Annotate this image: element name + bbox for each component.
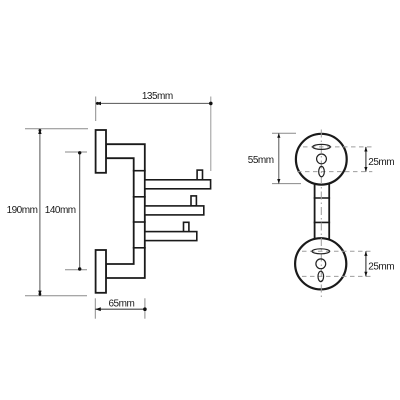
svg-text:190mm: 190mm <box>7 205 38 216</box>
svg-text:65mm: 65mm <box>109 298 135 309</box>
node: top disc lower hole <box>319 166 325 176</box>
wire: 190mm dimension line <box>39 129 41 296</box>
wire: top disc upper hole centerline <box>303 146 372 148</box>
node: hook arm 1 peg <box>197 170 202 180</box>
node: 65mm left arrow <box>95 307 101 311</box>
wire: 65mm right extension line <box>144 298 146 318</box>
node: 135mm right dot <box>209 102 213 106</box>
wire: bar joint line 1 <box>133 170 146 172</box>
wire: 190mm bottom extension line <box>25 295 87 297</box>
wire: 190mm top extension line <box>25 128 88 130</box>
node: 140mm top dot <box>78 151 81 154</box>
node: 25mm top dim upper arrow <box>364 147 367 152</box>
wire: bottom disc upper hole centerline <box>302 250 372 252</box>
node: hook arm 3 <box>145 232 197 241</box>
svg-text:25mm: 25mm <box>368 261 394 272</box>
node: bottom disc center hole <box>316 259 326 269</box>
svg-text:25mm: 25mm <box>368 157 394 168</box>
node: bottom disc slot hole <box>312 249 330 254</box>
node: 25mm top dim lower arrow <box>364 167 367 172</box>
node: top disc center hole <box>317 154 327 164</box>
wire: bar joint line 3 <box>133 221 146 223</box>
wire: 135mm dimension line <box>96 102 211 104</box>
wire: 140mm top extension line <box>65 151 87 153</box>
node: bottom mounting disc <box>295 238 346 289</box>
node: 135mm left arrow <box>96 102 101 106</box>
wire: vertical centerline <box>320 130 322 298</box>
wire: 140mm dimension line <box>79 152 81 270</box>
wire: 140mm bottom extension line <box>65 269 87 271</box>
wire: 25mm top dimension line <box>365 147 367 172</box>
node: 65mm right dot <box>143 307 147 311</box>
wire: neck joint line 1 <box>314 197 330 199</box>
node: bottom wall flange <box>96 250 106 293</box>
node: hook arm 2 <box>145 206 204 215</box>
wire: 65mm dimension line <box>95 308 145 310</box>
node: top mounting disc <box>296 134 347 185</box>
node: 140mm bottom dot <box>78 267 81 270</box>
node: 25mm bottom dim upper arrow <box>364 251 367 256</box>
wire: 25mm bottom dimension line <box>365 251 367 276</box>
node: 25mm bottom dim lower arrow <box>364 272 367 277</box>
node: 190mm top arrow <box>38 129 41 134</box>
wire: 135mm right extension line <box>210 97 212 172</box>
svg-text:135mm: 135mm <box>142 91 173 102</box>
wire: top disc lower hole centerline <box>297 171 372 173</box>
wire: 55mm dimension line <box>278 133 280 183</box>
wire: bar joint line 4 <box>133 247 146 249</box>
node: bottom disc lower hole <box>318 271 324 281</box>
wire: 55mm top extension line <box>272 132 296 134</box>
wire: 55mm bottom extension line <box>272 183 301 185</box>
wire: 135mm left extension line <box>95 97 97 122</box>
wire: neck joint line 2 <box>314 221 330 223</box>
node: 55mm top arrow <box>277 133 280 138</box>
svg-text:55mm: 55mm <box>248 155 274 166</box>
node: top disc slot hole <box>313 144 331 149</box>
node: 190mm bottom arrow <box>38 291 41 296</box>
wire: mount body C-outline (arm-bar-arm) <box>106 144 145 278</box>
node: hook arm 3 peg <box>184 222 189 232</box>
node: 55mm bottom arrow <box>277 179 280 184</box>
svg-text:140mm: 140mm <box>45 205 76 216</box>
wire: bar joint line 2 <box>133 196 146 198</box>
node: connecting neck bar <box>315 183 330 240</box>
node: hook arm 2 peg <box>191 196 196 206</box>
wire: bottom disc lower hole centerline <box>302 275 372 277</box>
node: hook arm 1 <box>145 180 211 189</box>
wire: 65mm left extension line <box>94 298 96 318</box>
node: top wall flange <box>96 130 106 173</box>
